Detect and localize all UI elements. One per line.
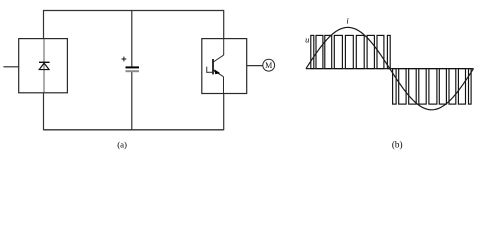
IGBT emitter diagonal: [214, 71, 224, 77]
IGBT channel bar: [212, 59, 214, 74]
svg-text:M: M: [265, 61, 272, 70]
rectifier box: [19, 39, 68, 93]
PWM positive pulses: [311, 35, 390, 68]
wire right vertical upper: [223, 10, 225, 39]
capacitor C wire lower: [131, 71, 133, 129]
IGBT collector diagonal: [213, 55, 223, 62]
pulse N3: [409, 69, 417, 105]
diode D1 triangle: [39, 63, 49, 70]
pulse N8: [458, 69, 465, 105]
wire input lead left: [3, 66, 18, 68]
pulse P7: [367, 35, 374, 68]
PWM negative pulses: [393, 69, 472, 105]
pulse N4: [419, 69, 426, 105]
pulse P1: [311, 35, 314, 68]
pulse N1: [393, 69, 397, 105]
IGBT gate bar: [206, 67, 208, 73]
IGBT emitter arrow: [214, 69, 220, 74]
wire left vertical lower: [43, 93, 45, 131]
svg-text:u: u: [305, 34, 309, 44]
IGBT collector wire: [223, 39, 225, 56]
pulse P6: [356, 35, 364, 68]
pulse P4: [334, 35, 342, 68]
wire left vertical upper: [43, 10, 45, 39]
current sine curve i: [306, 27, 474, 109]
pulse N7: [449, 69, 456, 105]
wire bottom rail: [44, 129, 224, 131]
wire motor lead: [247, 65, 263, 67]
capacitor C wire upper: [131, 11, 133, 67]
wire rectifier internal vertical: [43, 39, 45, 93]
pulse P8: [377, 35, 384, 68]
capacitor C top plate: [126, 66, 140, 68]
IGBT gate lead: [207, 71, 213, 73]
pulse N6: [439, 69, 446, 105]
pulse N5: [429, 69, 437, 105]
capacitor C bottom plate: [126, 70, 140, 72]
motor M circle: [263, 59, 275, 71]
pulse N2: [399, 69, 406, 105]
pulse P2: [316, 35, 323, 68]
pulse N9: [469, 69, 472, 105]
capacitor C plus sign: [122, 57, 127, 62]
svg-text:(a): (a): [117, 139, 127, 149]
diode D1 cathode bar: [39, 61, 50, 63]
pulse P9: [387, 35, 390, 68]
inverter box: [202, 39, 247, 94]
pulse P5: [345, 35, 353, 68]
wire right vertical lower: [223, 94, 225, 131]
IGBT emitter wire: [223, 77, 225, 94]
pulse P3: [325, 35, 332, 68]
svg-text:(b): (b): [392, 139, 403, 149]
wire top rail: [44, 10, 224, 12]
waveform axis: [306, 68, 474, 70]
